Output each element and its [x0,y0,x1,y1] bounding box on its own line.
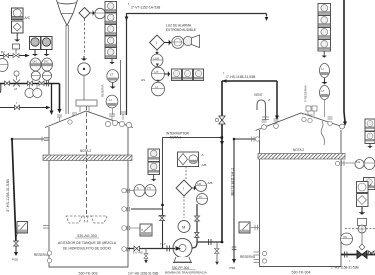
agitator impeller [66,216,107,223]
discharge [192,242,197,248]
agitator shaft (dashed) [86,106,88,217]
dashed horizontal [345,228,375,230]
left wall nozzle (y139) [42,137,49,142]
arrow into motor [82,56,85,60]
pump base [174,257,191,262]
second circle below [106,95,118,108]
panel rect [178,152,199,167]
svg-text:LSH: LSH [154,57,159,61]
line down to roof [324,100,326,118]
hatched band NOTA 2 (left tank) [43,155,132,161]
svg-text:2": 2" [268,98,271,102]
arrow diamond to circle [90,11,94,14]
right tank right wall nozzle to LG [341,162,355,164]
interlock diamond I2 [176,180,192,196]
pipe P2 [0,83,60,85]
two circles hanging below P2 [30,84,38,88]
dashed diamond to LSH [156,50,158,53]
arrow stack to LT [111,59,114,64]
strainer/M cross on P2 [13,80,20,87]
HS circle right [196,181,207,192]
diamond D1 [79,8,90,19]
arrow from box to valve [16,33,19,41]
left wall reserva nozzle [43,226,49,229]
svg-text:I: I [183,187,184,191]
svg-text:NOTA 1: NOTA 1 [170,136,181,140]
svg-text:HS: HS [198,182,202,186]
svg-text:LI: LI [322,67,325,71]
diamond I1 [150,35,165,50]
svg-text:VENT: VENT [254,93,263,97]
LSH circle [151,54,163,67]
FY box [358,219,367,226]
overhead pipe 2"-VT [127,14,267,17]
arrow to alarm [165,41,171,44]
svg-text:DIC: DIC [44,60,49,64]
discharge horizontal to junction [197,241,222,243]
svg-text:PA: PA [344,235,348,239]
middle vertical x222 [221,81,223,242]
valve on P1 left [4,54,9,58]
2x2 switch boxes [148,149,160,175]
circle at left edge [0,59,8,72]
control valve CV1 [13,54,19,58]
valve dark on pipe [357,251,367,259]
flange on P2 [47,81,49,87]
svg-text:530-TK-303: 530-TK-303 [79,272,98,275]
pump body [173,239,192,258]
agitator mount [76,100,97,106]
svg-text:DIC: DIC [33,60,38,64]
control valve circle [358,225,366,233]
dashed panel to diamond [185,167,187,180]
svg-text:RESERVA: RESERVA [240,255,256,259]
svg-text:LUZ DE ALARMA: LUZ DE ALARMA [166,24,192,28]
svg-text:1"-HS-1158-31-53B: 1"-HS-1158-31-53B [226,75,256,79]
arrow between circles [323,78,326,84]
nozzle2 line to suction [131,208,163,210]
pipe P3 [0,107,46,109]
roof nozzles right tank [262,106,345,129]
check valve [195,233,200,238]
svg-text:HS: HS [141,78,145,82]
suction flanges [167,246,170,252]
svg-text:BOMBA DE TRANSFERENCIA: BOMBA DE TRANSFERENCIA [165,271,207,275]
svg-text:RESERVA: RESERVA [101,84,105,97]
svg-text:TI: TI [137,187,140,191]
svg-text:PI: PI [199,195,202,199]
right top instrument stack (4 boxes) [318,4,331,52]
svg-text:LIT: LIT [155,70,159,74]
junction dot [221,241,224,244]
svg-text:LT: LT [110,73,113,77]
tag circles below [30,58,53,71]
LIT box right [364,178,375,190]
circle 2 [320,86,330,100]
circle LIT right [320,64,330,78]
arrow LIT to boxes [165,72,170,75]
interruptor line [163,137,223,139]
drain drop x146 [145,249,147,261]
svg-text:P: P [142,228,144,232]
valve on P3 [15,105,20,110]
svg-text:TIT: TIT [147,187,151,191]
right drop to tank roof [276,81,278,116]
svg-text:1"-HS-1158-31-53B: 1"-HS-1158-31-53B [331,266,359,270]
P2 drop x59.5 [59,84,61,110]
stem + diamond [361,233,363,244]
PS square (right tank) [239,222,250,233]
drain at x217 [216,242,218,261]
LI circle [152,82,165,96]
hatched band NOTA 2 (right tank) [258,154,345,160]
motor M circle [178,221,190,233]
svg-text:530-AG-303: 530-AG-303 [77,234,97,238]
arrow to HS [192,187,196,190]
vent riser from tank [126,13,128,115]
line from nozzle to TI [126,190,134,192]
stem to roof [112,108,114,115]
valve on x162 [160,216,165,221]
second tag circles row [31,71,40,80]
right far boxes [365,119,375,144]
P2 left loop [0,84,1,94]
LIT circle [152,67,165,81]
svg-text:NOTA 2: NOTA 2 [80,149,91,153]
LG circles right wall [355,160,364,169]
svg-text:1½"-HS: 1½"-HS [133,251,143,255]
svg-text:f'→f': f'→f' [160,242,166,246]
valve on P2 (3) [39,81,44,86]
alarm horn [183,36,192,45]
svg-text:A/B: A/B [202,163,207,167]
flange [345,252,348,258]
svg-text:A/C: A/C [25,16,31,20]
svg-text:AGITADOR DE TANQUE DE MEZCLA: AGITADOR DE TANQUE DE MEZCLA [58,241,117,245]
PI circle (pump discharge) [197,194,208,205]
wall nozzle y228 [122,226,127,231]
valve on P2 (2) [28,81,33,86]
dark pipe x344 [344,0,345,122]
svg-text:M: M [182,225,185,230]
tank TK-303 shell [45,111,133,267]
roof cone [45,111,133,128]
valve on P2 [5,81,10,86]
P2 drop x51.5 [51,84,53,111]
arrow down [360,207,364,214]
valve above [195,216,200,221]
PS square (left tank) [17,222,28,234]
svg-text:PSD: PSD [12,258,19,262]
arrow down [323,51,326,57]
right tank left wall nozzle y139 [252,137,255,142]
alarm circle XA [172,36,184,48]
svg-text:LI: LI [156,85,159,89]
svg-text:LT: LT [322,89,325,93]
dashed from diamond down to motor [84,19,86,56]
svg-text:1"-HS-1158-31-53B: 1"-HS-1158-31-53B [230,168,234,196]
svg-text:A: A [202,153,204,157]
circle right of diamond [95,8,105,18]
drain valve bottom [14,241,19,246]
svg-text:A/B: A/B [208,181,213,185]
second riser line [120,60,122,115]
right tank left wall nozzles (reserva) [254,252,260,263]
right tank drain line x234 [234,139,256,259]
svg-text:PSD: PSD [230,266,236,270]
box circle [357,182,369,193]
agitator motor M1 [78,63,90,75]
stack of 5 boxes [105,2,117,59]
svg-text:BJ: BJ [1,50,5,54]
instrument box A/C (top) [12,8,24,20]
arrow LT to circle2 [111,83,114,89]
suction pipe [128,248,175,250]
PS square (pump) [140,224,152,236]
bottom pipe right [341,254,375,256]
pipe 1-HS horizontal [222,80,277,82]
box diamond [357,194,369,207]
valve on middle vertical [219,116,225,124]
suction valve [134,246,140,251]
svg-text:3"-HS-1158-31-53B: 3"-HS-1158-31-53B [6,179,10,212]
roof nozzles left tank [57,112,132,128]
svg-text:F RESERVA: F RESERVA [304,85,308,102]
right wall nozzles of left tank [122,188,130,251]
svg-text:530-PP-304: 530-PP-304 [172,266,189,270]
valve 2 [369,251,375,255]
boxes pair B3 B4 [30,37,41,50]
svg-text:P: P [18,224,20,228]
drain line from tank left wall [12,138,44,140]
pipe P1 (to control valve) [0,55,29,57]
svg-text:2"-VT-1152-1A-53B: 2"-VT-1152-1A-53B [131,6,161,10]
tank TK-304 shell [256,113,346,267]
svg-text:DE HIDROSULFITO DE SODIO: DE HIDROSULFITO DE SODIO [63,247,112,251]
sample squiggle [321,121,324,145]
svg-text:1½"-HS-1158-31-53B: 1½"-HS-1158-31-53B [128,272,158,275]
svg-text:A: A [370,183,372,187]
svg-text:LI: LI [109,98,112,102]
svg-text:530-TK-304: 530-TK-304 [292,271,311,275]
svg-text:LG: LG [357,160,361,164]
feed double line to tank [66,25,68,114]
svg-text:ESTROBO AUDIBLE: ESTROBO AUDIBLE [166,28,196,32]
svg-text:I: I [156,41,157,45]
PI circle [341,233,353,245]
dashed diamond to motor [183,196,185,218]
instrument box (diamond) below [12,21,24,33]
arrow to TI/TIT [152,175,155,181]
svg-text:NOTA 2: NOTA 2 [293,148,304,152]
TI TIT circles [134,185,145,197]
LT circle [107,70,119,83]
funnel hopper [57,0,78,14]
3 boxes LI/LR/LAH [172,69,204,81]
